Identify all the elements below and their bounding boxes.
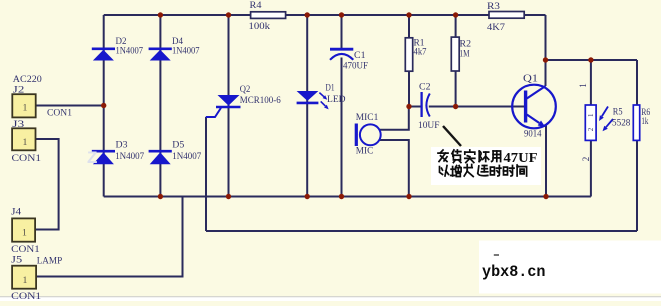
svg-text:1: 1	[22, 228, 27, 239]
svg-text:1: 1	[23, 275, 28, 286]
svg-text:J4: J4	[11, 208, 21, 218]
svg-text:1k: 1k	[641, 117, 648, 127]
svg-text:CON1: CON1	[12, 154, 42, 164]
svg-text:1N4007: 1N4007	[172, 152, 201, 162]
svg-text:D1: D1	[326, 83, 335, 93]
svg-text:D2: D2	[116, 37, 127, 47]
svg-text:J2: J2	[13, 86, 25, 96]
svg-text:2: 2	[587, 127, 595, 131]
svg-text:1M: 1M	[460, 50, 470, 60]
svg-text:Q1: Q1	[523, 74, 538, 85]
svg-text:R5: R5	[613, 108, 623, 118]
svg-text:1: 1	[23, 103, 28, 114]
svg-text:CON1: CON1	[47, 109, 72, 119]
svg-text:R2: R2	[460, 40, 472, 50]
svg-text:1: 1	[578, 83, 588, 88]
svg-text:1N4007: 1N4007	[172, 47, 200, 57]
svg-text:AC220: AC220	[13, 75, 42, 85]
svg-text:D4: D4	[172, 37, 183, 47]
svg-text:ybx8.cn: ybx8.cn	[482, 263, 546, 281]
svg-text:1: 1	[23, 137, 28, 148]
svg-text:4k7: 4k7	[414, 48, 427, 58]
svg-text:C2: C2	[419, 83, 431, 93]
svg-text:D3: D3	[116, 141, 128, 151]
svg-text:1N4007: 1N4007	[116, 47, 144, 57]
svg-text:MIC1: MIC1	[356, 113, 379, 123]
svg-text:J3: J3	[12, 120, 24, 130]
svg-text:Q2: Q2	[240, 85, 251, 95]
svg-text:10UF: 10UF	[418, 121, 440, 131]
svg-text:2: 2	[581, 157, 591, 162]
svg-text:Z: Z	[87, 148, 97, 167]
svg-text:J5: J5	[11, 256, 22, 266]
svg-text:100k: 100k	[249, 22, 271, 32]
svg-text:MIC: MIC	[356, 147, 374, 157]
svg-text:CON1: CON1	[11, 292, 41, 301]
svg-text:LAMP: LAMP	[37, 257, 63, 267]
svg-text:470UF: 470UF	[343, 62, 368, 72]
svg-text:1N4007: 1N4007	[115, 152, 144, 162]
svg-text:LED: LED	[327, 95, 346, 105]
svg-text:5528: 5528	[612, 119, 631, 129]
svg-text:CON1: CON1	[11, 245, 40, 255]
svg-text:47UF: 47UF	[504, 150, 538, 165]
svg-text:9014: 9014	[524, 130, 542, 140]
svg-text:C1: C1	[354, 51, 366, 61]
svg-text:4K7: 4K7	[487, 23, 505, 33]
svg-text:1: 1	[587, 113, 595, 117]
svg-text:R4: R4	[250, 1, 262, 11]
svg-text:D5: D5	[172, 141, 184, 151]
svg-text:MCR100-6: MCR100-6	[240, 96, 281, 106]
svg-text:R3: R3	[487, 2, 500, 12]
